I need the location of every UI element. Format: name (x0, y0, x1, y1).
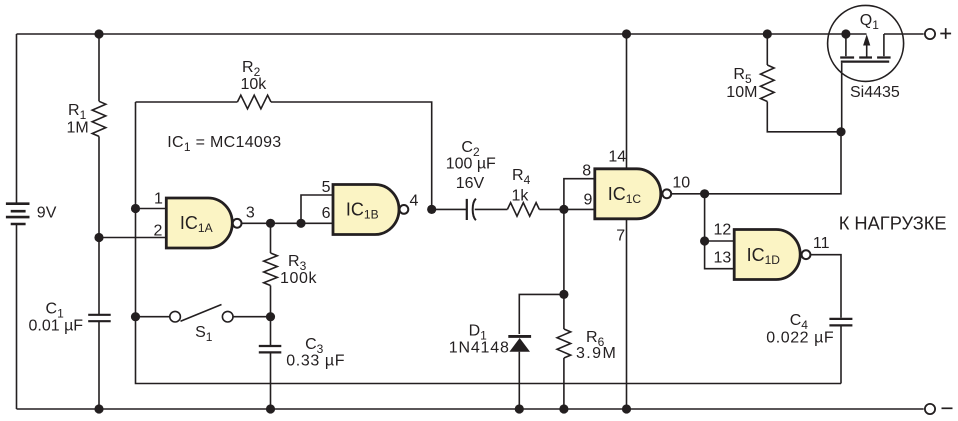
transistor Q1 gate bar (841, 60, 889, 62)
svg-text:1k: 1k (512, 188, 530, 205)
svg-text:1: 1 (154, 191, 163, 208)
node pin7 ground (622, 404, 631, 413)
terminal plus circle (925, 29, 935, 39)
wire R3 column (270, 223, 272, 409)
wire R2 right lead down to pin4 node (271, 102, 432, 209)
bubble IC1C (662, 189, 671, 198)
svg-text:13: 13 (714, 250, 732, 267)
wire pin8 loop (564, 179, 595, 210)
node gate R5 (836, 127, 845, 136)
svg-text:0.022 µF: 0.022 µF (766, 329, 834, 346)
svg-text:3.9M: 3.9M (576, 345, 617, 362)
svg-text:R4: R4 (512, 167, 531, 187)
resistor R3 (264, 253, 278, 286)
svg-text:К НАГРУЗКЕ: К НАГРУЗКЕ (839, 212, 947, 233)
node R1 top rail (94, 29, 103, 38)
transistor Q1 source stub (845, 34, 847, 56)
svg-text:12: 12 (714, 222, 732, 239)
svg-text:1N4148: 1N4148 (449, 340, 510, 357)
node pin12 (700, 236, 709, 245)
svg-text:0.01 µF: 0.01 µF (29, 318, 84, 335)
svg-text:9V: 9V (37, 204, 57, 221)
wire pin7 to ground rail (626, 219, 628, 409)
capacitor C1 (88, 315, 111, 321)
node D1 ground (515, 404, 524, 413)
diode D1 cathode bar (508, 335, 531, 338)
transistor Q1 body circle (828, 5, 904, 81)
op-amp gate IC1A (166, 198, 232, 248)
op-amp gate IC1B (333, 185, 399, 235)
node pin9 (559, 205, 568, 214)
node S1 left (131, 312, 140, 321)
node pin3 R3 (266, 219, 275, 228)
capacitor C2 plates (466, 199, 468, 220)
svg-text:6: 6 (322, 205, 331, 222)
wire pin11 to C4 (811, 255, 841, 318)
switch S1 lever (181, 305, 222, 322)
resistor R5 (761, 65, 775, 102)
wire bottom negative rail (17, 408, 924, 410)
wire pin10 down to pins 12/13 (704, 194, 706, 241)
transistor Q1 channel bars (840, 56, 890, 58)
node pin14 top rail (622, 29, 631, 38)
resistor R1 (92, 101, 106, 136)
terminal minus sign (942, 407, 953, 409)
wire top positive rail (17, 33, 924, 35)
node D1 branch (559, 290, 568, 299)
svg-text:7: 7 (616, 228, 625, 245)
wire pin1 stub (136, 208, 167, 210)
svg-text:Si4435: Si4435 (850, 84, 900, 101)
switch S1 contacts (170, 311, 181, 322)
bubble IC1A (233, 219, 242, 228)
wire R1 column (98, 34, 100, 409)
op gate output pin3 wire (242, 222, 333, 224)
wire pin12 stub (705, 240, 735, 242)
svg-text:R5: R5 (733, 66, 752, 86)
wire pin4 to C2 (432, 208, 466, 210)
wire pin9 node down to D1/R6 node (563, 209, 565, 409)
svg-text:9: 9 (584, 192, 593, 209)
switch S1 wires (136, 316, 271, 318)
wire R5 top lead (766, 34, 768, 65)
svg-text:5: 5 (322, 179, 331, 196)
node pin2 (94, 233, 103, 242)
wire R2 left lead (136, 101, 238, 103)
op-amp gate IC1D (734, 230, 800, 280)
node S1 right (266, 312, 275, 321)
wire pin2 from C1/R1 column (99, 237, 166, 239)
wire pin13 loop (705, 241, 735, 269)
svg-text:100 µF: 100 µF (446, 156, 496, 173)
svg-text:11: 11 (813, 235, 830, 252)
wire D1 anode to ground rail (518, 352, 520, 409)
node pin10 (700, 189, 709, 198)
resistor R4 (507, 203, 539, 217)
svg-text:10k: 10k (241, 76, 268, 93)
battery 9V (6, 204, 30, 224)
bubble IC1B (400, 205, 409, 214)
wire left rail (16, 34, 18, 409)
terminal plus sign (940, 28, 951, 39)
node C1 ground (94, 404, 103, 413)
capacitor C3 (259, 346, 282, 352)
svg-text:1M: 1M (67, 120, 89, 137)
wire C2 to R4 (475, 208, 508, 210)
svg-text:10M: 10M (726, 84, 757, 101)
diode D1 triangle (509, 338, 530, 352)
svg-text:16V: 16V (456, 175, 485, 192)
node C3 ground (266, 404, 275, 413)
node pin4 (427, 205, 436, 214)
transistor Q1 body arrow head (863, 34, 870, 45)
wire pin14 from top rail (626, 34, 628, 168)
resistor R6 (557, 329, 571, 358)
wire feedback column x135.5 and bottom run to C4 (136, 102, 842, 384)
wire C4 bottom lead (840, 327, 842, 384)
wire pin10 run to gate node (671, 132, 841, 194)
node pin1 (131, 204, 140, 213)
node Q1 source (841, 29, 850, 38)
transistor Q1 body arrow shaft (866, 42, 868, 57)
svg-text:10: 10 (672, 175, 690, 192)
op-amp gate IC1C (595, 169, 661, 219)
bubble IC1D (802, 250, 811, 259)
svg-text:IC1 = MC14093: IC1 = MC14093 (167, 134, 281, 154)
wire branch to D1 (519, 294, 564, 334)
resistor R2 (237, 95, 271, 109)
transistor Q1 gate lead (841, 63, 843, 132)
wire R4 to pin9 (539, 208, 595, 210)
node R6 ground (559, 404, 568, 413)
svg-text:8: 8 (582, 162, 591, 179)
svg-text:4: 4 (410, 193, 419, 210)
svg-text:3: 3 (246, 205, 255, 222)
svg-text:S1: S1 (195, 324, 213, 344)
terminal minus circle (925, 404, 935, 414)
wire R5 bottom to gate node (767, 102, 841, 132)
capacitor C4 (829, 319, 852, 326)
svg-text:14: 14 (608, 148, 626, 165)
svg-text:100k: 100k (280, 270, 317, 287)
svg-text:Q1: Q1 (860, 12, 879, 32)
svg-text:2: 2 (154, 223, 163, 240)
node pin6 loop (296, 219, 305, 228)
op-amp gates (166, 169, 800, 280)
svg-text:0.33 µF: 0.33 µF (286, 353, 345, 370)
node R5 top rail (763, 29, 772, 38)
wire pin5 loop (301, 195, 333, 223)
transistor Q1 drain stub (883, 34, 885, 56)
